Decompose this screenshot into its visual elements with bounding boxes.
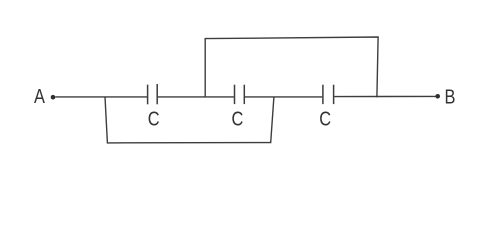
svg-text:A: A — [34, 84, 45, 107]
svg-text:C: C — [148, 107, 160, 130]
svg-text:C: C — [319, 107, 331, 130]
svg-text:B: B — [445, 85, 456, 108]
svg-text:C: C — [231, 107, 243, 130]
